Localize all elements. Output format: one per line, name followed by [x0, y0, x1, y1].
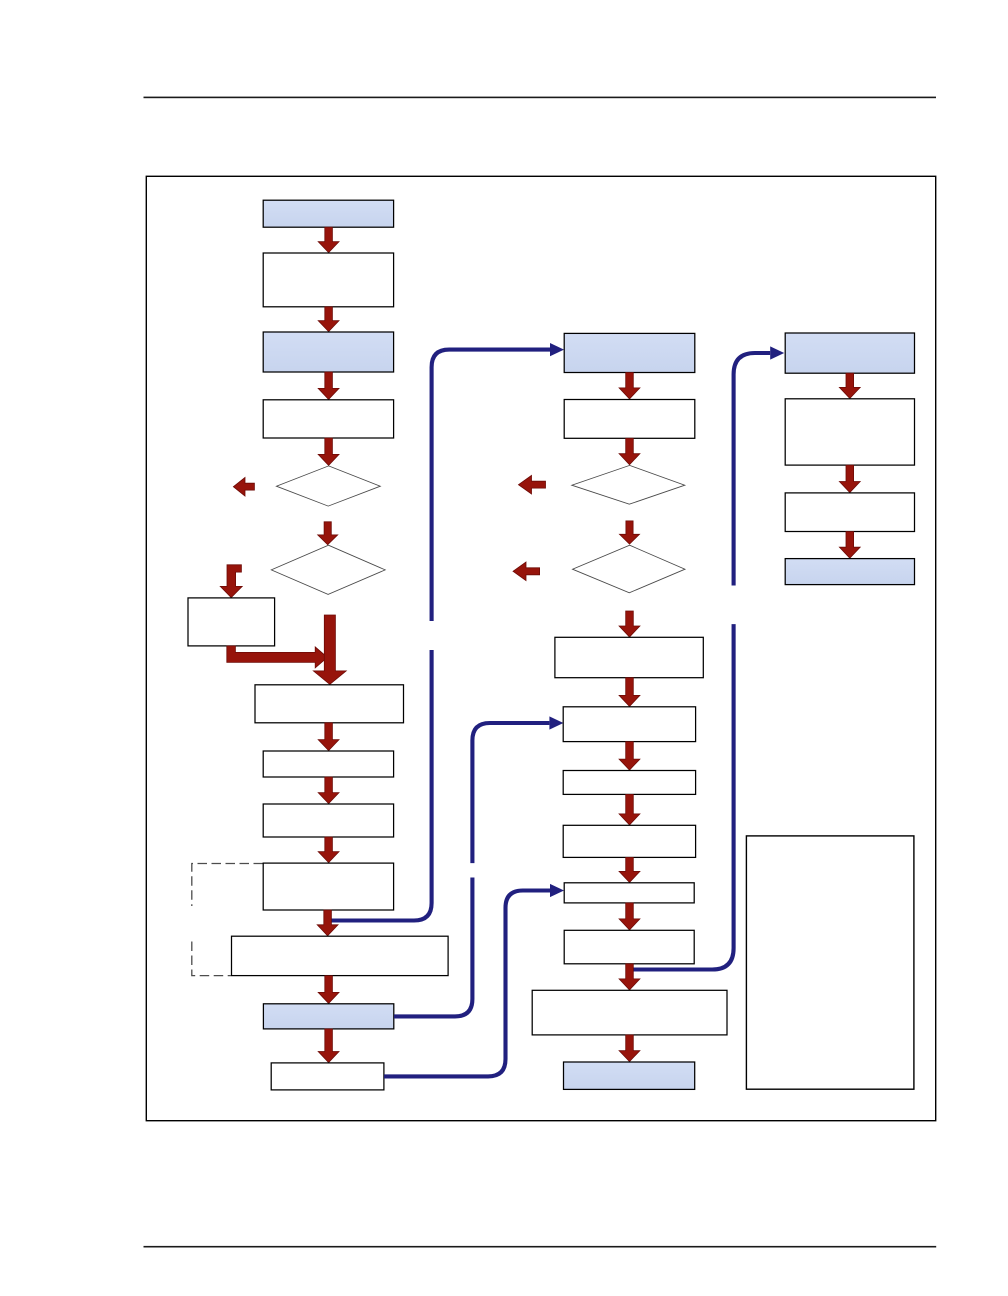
connector M8 to R1 (upper run)	[734, 353, 771, 586]
arrow M8-M9	[619, 964, 640, 990]
diamond D1	[276, 466, 380, 506]
box M4	[563, 707, 695, 742]
diamond D2	[271, 545, 385, 594]
box M1 (shaded)	[564, 333, 695, 372]
connector L9 to M1 (upper run)	[432, 350, 550, 621]
thick main line D2 to L6	[313, 615, 346, 684]
connector M8 to R1 (lower run)	[627, 624, 734, 969]
connector L12 to M7	[384, 891, 550, 1077]
box M2	[564, 400, 695, 439]
box L9	[263, 863, 393, 910]
arrow M1-M2	[619, 373, 640, 399]
branch arrow left of D1	[233, 477, 254, 496]
diamond MD2	[573, 545, 686, 593]
box L8	[263, 804, 393, 837]
box M8	[564, 930, 694, 964]
box L11 (shaded)	[263, 1004, 393, 1029]
arrow R2-R3	[839, 465, 860, 492]
arrow MD1-MD2	[620, 521, 640, 544]
box M9 (wide)	[532, 990, 727, 1035]
arrow M2-MD1	[619, 438, 640, 464]
arrow M7-M8	[619, 903, 640, 930]
outer frame	[146, 176, 935, 1120]
arrow M4-M5	[619, 742, 640, 771]
box R4 end (shaded)	[785, 559, 914, 585]
arrow L4-D1	[318, 438, 339, 465]
box M10 end (shaded)	[564, 1062, 695, 1089]
box R2	[785, 399, 914, 465]
elbow arrow into L5	[220, 565, 242, 598]
box L5 (side)	[188, 598, 275, 646]
arrow MD2-M3	[619, 611, 640, 637]
connector L9 to M1 (lower run)	[329, 650, 432, 921]
box M6	[563, 825, 695, 857]
box L10 (wide)	[232, 936, 449, 975]
arrow L2-L3	[318, 307, 339, 332]
branch arrow left of MD2	[513, 562, 540, 581]
arrow M5-M6	[619, 794, 640, 825]
box L2	[263, 253, 393, 307]
arrow L6-L7	[318, 723, 339, 751]
dashed note bracket lower	[192, 942, 231, 976]
diamond MD1	[572, 465, 685, 504]
elbow arrow L5 to main line	[227, 646, 328, 668]
dashed note bracket upper	[192, 864, 263, 907]
arrow L1-L2	[318, 227, 339, 252]
connector arrowhead into M1	[550, 343, 564, 356]
arrow R1-R2	[839, 373, 860, 398]
box L3 (shaded)	[263, 332, 393, 372]
connector arrowhead into M7	[550, 884, 564, 897]
footer rule	[144, 1246, 937, 1248]
arrow M3-M4	[619, 678, 640, 707]
box M7	[564, 883, 694, 903]
arrow L9-L10	[317, 910, 338, 936]
box R3	[785, 493, 914, 532]
arrow M9-M10	[619, 1035, 640, 1062]
arrow L10-L11	[318, 976, 339, 1004]
connector arrowhead into M4	[549, 716, 563, 729]
arrow R3-R4	[839, 532, 860, 559]
box L6	[255, 685, 404, 723]
connector L11 to M4 (lower run)	[394, 878, 472, 1017]
box R1 (shaded)	[785, 333, 914, 373]
arrow L11-L12	[318, 1029, 339, 1063]
box M3 (wide)	[555, 637, 703, 677]
box M5	[563, 771, 695, 795]
branch arrow left of MD1	[519, 475, 546, 494]
arrow D1-D2	[318, 522, 338, 545]
legend box	[746, 836, 914, 1089]
header rule	[144, 97, 937, 99]
arrow L8-L9	[318, 837, 339, 863]
box L12	[271, 1063, 384, 1090]
arrow M6-M7	[619, 857, 640, 882]
arrow L7-L8	[318, 777, 339, 804]
box L1 start (shaded)	[263, 200, 393, 227]
connector arrowhead into R1	[770, 346, 784, 359]
box L7	[263, 751, 393, 777]
box L4	[263, 400, 393, 438]
connector L11 to M4 (upper run)	[472, 723, 549, 863]
arrow L3-L4	[318, 372, 339, 399]
